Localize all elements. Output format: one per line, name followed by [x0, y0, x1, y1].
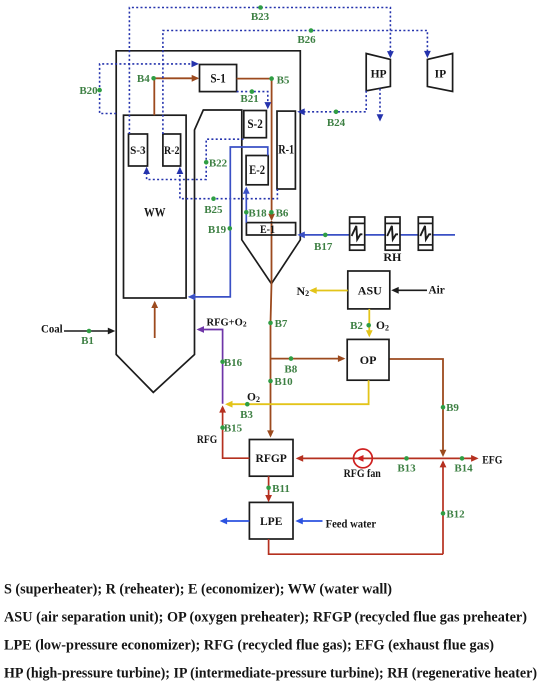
svg-text:B19: B19 [208, 224, 227, 236]
svg-text:WW: WW [144, 206, 166, 220]
node B3 [245, 402, 250, 407]
RH heater box 1 [350, 217, 365, 250]
node B6 [269, 210, 274, 215]
svg-text:B24: B24 [327, 117, 346, 129]
arrowhead steam into S-3 [143, 167, 150, 174]
feedwater E-1 to E-2 (blue solid) [245, 188, 247, 222]
svg-text:LPE: LPE [260, 516, 283, 528]
node B23 [258, 5, 263, 10]
svg-text:B26: B26 [297, 34, 316, 46]
node B24 [334, 110, 339, 115]
cold reheat HP to R-1 (B24 line) [299, 91, 366, 112]
LPE box [249, 502, 293, 539]
svg-text:HP (high-pressure turbine); I: HP (high-pressure turbine); IP (intermed… [4, 666, 537, 682]
svg-text:B9: B9 [446, 402, 459, 414]
steam line S-2 to S-3 (B22 line) [147, 139, 244, 179]
svg-text:B25: B25 [204, 204, 223, 216]
reheater R-1 [277, 111, 295, 189]
svg-text:B22: B22 [209, 157, 228, 169]
svg-text:E-1: E-1 [260, 224, 275, 236]
svg-text:LPE (low-pressure economizer);: LPE (low-pressure economizer); RFG (recy… [4, 638, 494, 654]
node B20 [97, 88, 102, 93]
Air feed line [394, 289, 427, 291]
EFG outlet line (red) [443, 457, 477, 459]
node B12 [441, 511, 446, 516]
economizer E-2 [246, 156, 268, 185]
HP turbine [366, 54, 390, 91]
svg-text:B18: B18 [248, 207, 267, 219]
node B26 [309, 28, 314, 33]
svg-text:B13: B13 [397, 463, 416, 475]
svg-text:B6: B6 [276, 207, 289, 219]
svg-text:Feed water: Feed water [326, 517, 377, 531]
svg-text:B2: B2 [350, 320, 363, 332]
arrowhead reheat into R-1 [297, 108, 305, 115]
node B2 [366, 323, 371, 328]
svg-text:S-3: S-3 [130, 143, 146, 157]
junction up arrow from recycle loop (red) [442, 462, 444, 554]
node B5 [269, 76, 274, 81]
node B15 [220, 425, 225, 430]
steam line R-2 to IP (B26 line) [163, 31, 428, 135]
RFGP to LPE line B11 (red) [268, 476, 270, 500]
node B19 [228, 226, 233, 231]
LPE bottom recycle loop (red) [269, 539, 443, 554]
node B10 [268, 379, 273, 384]
svg-text:B7: B7 [275, 318, 288, 330]
flue gas: WW top to S-1 (brown) [154, 78, 197, 115]
svg-text:N2: N2 [297, 284, 310, 298]
superheater S-1 [200, 65, 237, 92]
node B18 [244, 210, 249, 215]
svg-text:HP: HP [371, 68, 387, 80]
svg-text:EFG: EFG [482, 453, 502, 467]
IP turbine [427, 54, 452, 92]
svg-text:B14: B14 [454, 463, 473, 475]
Feed water inlet (blue) [299, 520, 323, 522]
arrowhead steam into S-2 [264, 102, 271, 109]
svg-text:B20: B20 [79, 85, 98, 97]
reheater R-2 [163, 134, 181, 166]
arrowhead steam into R-2 [177, 167, 184, 174]
svg-text:RFG+O2: RFG+O2 [207, 318, 247, 329]
economizer E-1 [246, 223, 295, 235]
svg-text:IP: IP [435, 68, 447, 80]
svg-text:B1: B1 [81, 335, 94, 347]
arrowhead steam into S-1 [192, 61, 200, 68]
furnace combustion arrow (brown) [154, 303, 156, 339]
RFG+O2 line to furnace (purple) [198, 330, 222, 404]
flue gas OP to EFG junction (brown) [389, 359, 443, 455]
ASU box [348, 271, 390, 309]
svg-text:O2: O2 [376, 320, 389, 332]
node B22 [204, 160, 209, 165]
superheater S-3 [129, 134, 148, 166]
RFGP box [249, 440, 293, 477]
OP box [347, 339, 389, 380]
O2 to OP line B2 (yellow) [368, 309, 370, 335]
node B9 [441, 405, 446, 410]
water wall WW box [124, 115, 187, 298]
svg-text:E-2: E-2 [249, 163, 265, 177]
arrowhead steam into IP [424, 51, 431, 58]
node B17 [323, 233, 328, 238]
superheater S-2 [244, 111, 267, 138]
svg-text:B8: B8 [284, 363, 297, 375]
HP extraction steam line [379, 89, 381, 120]
boiler casing outline [116, 51, 300, 393]
svg-text:B17: B17 [314, 241, 333, 253]
RFG fan suction line (red) [298, 457, 444, 459]
node B1 [87, 329, 92, 334]
svg-text:O2: O2 [247, 392, 260, 404]
Coal feed line [64, 330, 113, 332]
svg-text:ASU: ASU [358, 284, 382, 298]
node B4 [151, 76, 156, 81]
arrowhead steam into HP [387, 51, 394, 58]
node B11 [266, 486, 271, 491]
svg-text:ASU (air separation unit); OP: ASU (air separation unit); OP (oxygen pr… [4, 610, 527, 626]
arrowhead HP extraction down [377, 114, 384, 121]
node B25 [211, 196, 216, 201]
svg-text:R-2: R-2 [164, 143, 180, 157]
steam line WW to S-1 (B20 line) [100, 64, 197, 114]
svg-text:B4: B4 [137, 73, 150, 85]
svg-text:B21: B21 [240, 93, 258, 105]
svg-text:B11: B11 [272, 483, 290, 495]
flue gas: S-1 to B5 down to E-1 (brown) [237, 79, 272, 220]
svg-text:B10: B10 [274, 376, 293, 388]
svg-text:R-1: R-1 [278, 143, 294, 157]
RH heater box 2 [385, 217, 400, 250]
svg-text:RFG: RFG [197, 432, 217, 446]
RH heater box 3 [418, 217, 432, 250]
svg-text:Air: Air [429, 283, 446, 297]
svg-text:RFG fan: RFG fan [344, 466, 381, 480]
Feed water outlet (blue) [222, 520, 250, 522]
svg-text:RH: RH [383, 250, 402, 264]
steam line S-1 to S-2 (B21 line) [237, 92, 268, 108]
svg-text:B23: B23 [251, 11, 270, 23]
node B8 [289, 356, 294, 361]
steam line R-1 to R-2 (B25 line) [180, 168, 278, 199]
svg-text:Coal: Coal [41, 321, 63, 335]
N2 product line (yellow) [311, 290, 348, 292]
node B14 [460, 456, 465, 461]
RFG fan [354, 449, 373, 468]
node B21 [250, 89, 255, 94]
steam line S-3 to HP (B23 line) [129, 8, 390, 135]
svg-text:S-2: S-2 [247, 117, 263, 131]
svg-text:S (superheater); R (reheater): S (superheater); R (reheater); E (econom… [4, 582, 392, 598]
RFG riser from RFGP (red) [223, 407, 250, 458]
node B13 [404, 456, 409, 461]
svg-text:B16: B16 [224, 357, 243, 369]
svg-text:B15: B15 [224, 423, 243, 435]
node B16 [220, 359, 225, 364]
regenerative heater line (blue solid) [299, 234, 455, 236]
O2 from OP to junction (yellow) [227, 380, 369, 404]
svg-text:OP: OP [360, 353, 377, 367]
node B7 [268, 321, 273, 326]
flue gas vertical through E-1 and funnel to RFGP (brown) [271, 221, 272, 436]
flue gas branch to OP (brown) [271, 358, 344, 360]
feedwater E-2 to WW (blue solid) [190, 147, 268, 297]
svg-text:S-1: S-1 [210, 71, 226, 85]
svg-text:B5: B5 [277, 74, 290, 86]
svg-text:B3: B3 [240, 409, 253, 421]
svg-text:RFGP: RFGP [256, 453, 287, 465]
svg-text:B12: B12 [446, 508, 465, 520]
